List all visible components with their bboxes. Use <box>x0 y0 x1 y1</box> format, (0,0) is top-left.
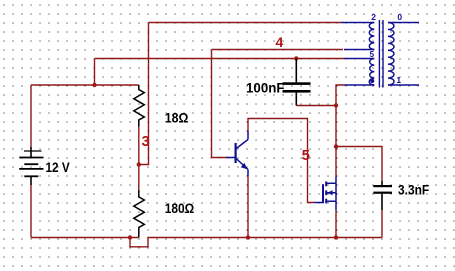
transformer primary winding W1 bottom lead <box>344 49 374 51</box>
wire bottom rail jog <box>130 238 248 247</box>
wire node 3 segment R1 to R2 <box>138 127 140 190</box>
transformer primary winding W2 coil <box>369 59 374 86</box>
bottom rail junction dot left <box>128 235 132 239</box>
transformer secondary coil <box>388 23 394 86</box>
svg-text:5: 5 <box>370 50 375 59</box>
transformer polarity dot <box>370 79 374 83</box>
wire vertical branch to battery top wire <box>94 59 96 86</box>
svg-text:2: 2 <box>371 12 376 22</box>
junction dot C1 top <box>294 56 298 60</box>
wire battery bottom to ground rail <box>31 185 139 238</box>
transformer secondary pin 1 lead <box>388 84 419 86</box>
wire battery plus rail <box>95 58 345 60</box>
junction dot on drain branch lower <box>334 144 338 148</box>
wire transformer primary bottom branch <box>336 85 344 177</box>
resistor R1 18ohm <box>134 85 145 127</box>
wire bottom rail right <box>248 237 382 239</box>
node A junction dot <box>92 83 96 87</box>
wire node 4 horizontal to transformer tap <box>212 49 344 51</box>
transformer primary winding W1 pin 2 lead <box>341 22 374 24</box>
svg-text:180Ω: 180Ω <box>165 200 195 216</box>
transistor Q1 npn <box>226 131 248 176</box>
resistor R2 180ohm <box>134 190 145 238</box>
bottom rail junction dot mosfet source <box>334 235 338 239</box>
wire emitter down to rail <box>247 176 249 238</box>
junction dot on drain branch upper <box>334 103 338 107</box>
svg-text:3: 3 <box>142 133 150 150</box>
svg-text:100nF: 100nF <box>246 79 285 95</box>
capacitor C1 100nF <box>283 59 311 106</box>
svg-text:5: 5 <box>302 147 310 164</box>
node 3 junction dot <box>137 162 141 166</box>
svg-text:18Ω: 18Ω <box>165 110 189 126</box>
svg-text:0: 0 <box>397 12 402 22</box>
mosfet M1 nmos <box>314 177 336 211</box>
transistor Q1 emitter arrow <box>241 163 248 169</box>
battery V1 12V <box>19 147 43 185</box>
wire capacitor C2 bottom to rail <box>381 210 383 238</box>
wire to capacitor C2 <box>336 147 382 182</box>
svg-text:4: 4 <box>276 34 284 50</box>
transformer core lines <box>379 20 383 88</box>
transformer secondary pin 0 lead <box>388 22 419 24</box>
wire top rail node 2 <box>149 22 342 24</box>
transformer primary winding W2 top lead pin 5 <box>344 58 374 60</box>
transformer primary winding W1 coil <box>369 23 374 50</box>
wire node 4 vertical down to transistor base <box>212 50 228 158</box>
wire collector to node 5 <box>248 119 314 203</box>
bottom rail junction dot emitter <box>246 235 250 239</box>
transformer TX1 <box>341 20 419 88</box>
wire capacitor C1 bottom to drain branch <box>296 105 336 107</box>
svg-text:12 V: 12 V <box>46 159 71 175</box>
svg-text:3.3nF: 3.3nF <box>398 182 430 198</box>
mosfet M1 arrow <box>327 190 332 195</box>
transformer primary winding W2 bottom lead <box>344 84 374 86</box>
capacitor C2 3.3nF <box>373 181 392 210</box>
svg-text:1: 1 <box>396 75 401 85</box>
wire mosfet source to rail <box>335 210 337 238</box>
wire vertical from top rail down to node 3 <box>139 23 149 165</box>
wire battery top to resistor R1 <box>31 85 139 147</box>
